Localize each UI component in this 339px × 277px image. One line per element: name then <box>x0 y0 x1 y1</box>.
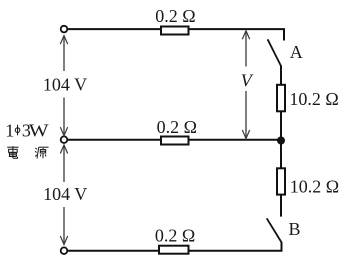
svg-text:0.2 Ω: 0.2 Ω <box>155 6 195 26</box>
resistor 10.2 ohm lower box <box>277 168 285 194</box>
svg-text:W: W <box>29 121 49 141</box>
svg-text:104 V: 104 V <box>43 75 87 95</box>
dimension arrow V shaft <box>245 31 247 67</box>
kanji GEN (source) drawn <box>35 147 49 158</box>
source terminal middle <box>61 136 68 143</box>
svg-text:B: B <box>289 219 301 239</box>
dimension arrow 104V upper shaft <box>63 36 65 71</box>
phi symbol <box>15 125 20 136</box>
switch B blade <box>267 218 282 242</box>
resistor 10.2 ohm upper box <box>277 85 285 112</box>
svg-text:1: 1 <box>5 121 14 141</box>
source terminal bottom <box>61 247 68 254</box>
svg-text:104 V: 104 V <box>43 184 87 204</box>
junction node dot <box>277 137 285 145</box>
svg-text:A: A <box>290 42 303 62</box>
wire right vertical branch <box>280 66 282 217</box>
svg-text:10.2 Ω: 10.2 Ω <box>290 176 339 196</box>
source terminal top <box>61 26 68 33</box>
wire top line with corner stub to switch A fixed contact <box>67 29 284 40</box>
switch A blade <box>268 39 281 66</box>
svg-text:0.2 Ω: 0.2 Ω <box>155 225 195 245</box>
svg-text:0.2 Ω: 0.2 Ω <box>157 117 197 137</box>
resistor 0.2 ohm top box <box>161 27 189 35</box>
dimension arrow 104V lower shaft <box>63 145 65 182</box>
svg-text:10.2 Ω: 10.2 Ω <box>289 89 338 109</box>
wire middle line <box>67 139 281 141</box>
resistor 0.2 ohm middle box <box>161 137 189 145</box>
wire bottom line with riser to switch B hinge <box>67 242 282 251</box>
resistor 0.2 ohm bottom box <box>159 246 189 254</box>
kanji DEN (electricity) drawn <box>7 146 18 158</box>
